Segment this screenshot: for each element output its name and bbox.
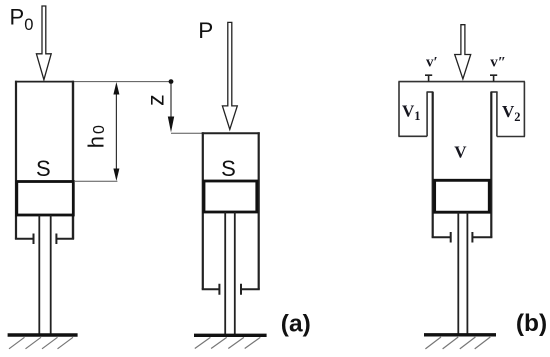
right outer wall [523,82,525,137]
svg-text:(b): (b) [516,310,547,337]
left outer wall [398,82,400,137]
piston (left) [17,182,74,216]
header top line [398,81,525,83]
piston rod (middle) [224,212,226,335]
piston (middle) [204,181,257,212]
right wall cap [491,91,498,93]
force arrow P (hollow) [222,22,237,129]
ground (b) [424,333,496,336]
svg-text:P: P [198,18,213,43]
V1 inner wall [426,92,428,136]
svg-text:S: S [221,156,236,181]
cylinder b left flange [432,232,451,243]
label h0 (rotated) [83,125,108,148]
svg-text:(a): (a) [281,310,311,337]
extension line from cylinder top to node [74,81,171,83]
cylinder a0 left flange [15,234,34,245]
valve v'' [490,75,497,81]
extension line at piston top level [74,180,117,182]
cylinder a0 right wall [72,81,74,239]
piston rod (left) [38,215,40,335]
svg-text:v″: v″ [490,54,506,70]
svg-text:V: V [454,142,467,161]
h0 dimension double arrow [115,92,117,172]
ground hatching (left) [9,337,73,349]
z dimension line [170,84,172,128]
svg-text:z: z [143,94,169,106]
svg-text:S: S [36,156,51,181]
piston (b) [435,180,490,212]
extension line to cylinder a [171,132,202,134]
cylinder a right flange [241,284,260,295]
V2 bottom [497,136,525,138]
force arrow P0 (hollow) [36,6,51,80]
cylinder a0 left wall [15,81,17,239]
z arrowhead [168,117,174,133]
piston rod (b) [457,212,459,335]
valve v' [425,75,432,81]
ground hatching (b) [425,337,490,349]
cylinder a left flange [202,284,220,295]
V2 inner wall [496,92,498,137]
cylinder a0 top edge [15,81,74,83]
V1 bottom [398,135,427,137]
ground hatching (middle) [195,337,260,348]
ground (middle) [194,334,267,337]
cylinder b right wall [490,92,492,237]
cylinder a0 right flange [56,234,74,245]
cylinder b right flange [472,232,492,243]
ground (left) [8,333,78,336]
cylinder b left wall [432,92,434,237]
cylinder a top edge [202,132,260,134]
node dot [169,79,174,84]
label z (rotated) [143,94,169,106]
svg-text:v′: v′ [426,54,438,70]
force arrow (b, hollow) [455,25,471,79]
left wall cap [427,91,434,93]
cylinder a left wall [202,132,204,289]
cylinder a right wall [258,132,260,289]
